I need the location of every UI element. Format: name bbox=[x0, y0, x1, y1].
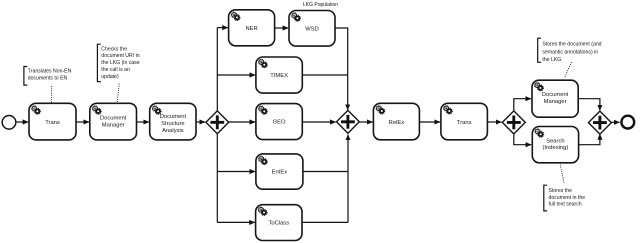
wire EntEx out to bottom bus bbox=[303, 171, 348, 173]
wire G1 to TIMEX bbox=[217, 74, 255, 76]
task Trans 2 bbox=[441, 103, 488, 140]
wire Document Manager to Document Structure Analysis bbox=[137, 121, 149, 123]
svg-text:Stores the: Stores the bbox=[549, 188, 573, 194]
svg-text:Manager: Manager bbox=[544, 99, 567, 105]
gateway G2 parallel bbox=[337, 110, 360, 133]
svg-text:Analysis: Analysis bbox=[162, 128, 184, 134]
task Trans bbox=[29, 103, 76, 140]
svg-text:RelEx: RelEx bbox=[389, 120, 405, 126]
svg-text:Checks the: Checks the bbox=[101, 46, 127, 52]
svg-text:ToClass: ToClass bbox=[268, 221, 289, 227]
start event bbox=[2, 116, 16, 130]
wire start to Trans bbox=[16, 121, 28, 123]
wire G3 to Search bbox=[514, 134, 531, 145]
task EntEx bbox=[256, 154, 303, 189]
svg-text:the call is an: the call is an bbox=[101, 67, 130, 73]
task NER bbox=[229, 10, 275, 46]
wire ToClass out to bottom bus bbox=[302, 221, 348, 223]
wire G1 to EntEx bbox=[217, 171, 255, 173]
wire G1 to ToClass bbox=[217, 221, 255, 223]
wire Document Manager 2 to gateway G4 top bbox=[578, 99, 600, 111]
leader dotted A1 to Trans bbox=[51, 87, 53, 103]
gateway G1 parallel bbox=[206, 111, 229, 134]
svg-text:LKG Population: LKG Population bbox=[303, 2, 338, 8]
svg-text:full text search: full text search bbox=[549, 202, 582, 208]
task TIMEX bbox=[256, 57, 302, 93]
svg-text:TIMEX: TIMEX bbox=[270, 73, 288, 79]
svg-text:the LKG: the LKG bbox=[542, 57, 561, 63]
task Document Manager 2 bbox=[532, 80, 578, 117]
svg-text:the LKG (in case: the LKG (in case bbox=[101, 60, 139, 66]
wire Document Structure Analysis to gateway G1 bbox=[196, 121, 205, 123]
svg-text:documents to EN: documents to EN bbox=[28, 76, 68, 82]
wire G2 to RelEx bbox=[359, 121, 372, 123]
svg-text:GEO: GEO bbox=[273, 120, 286, 126]
wire Trans to Document Manager bbox=[76, 121, 89, 123]
wire G1 to NER bbox=[217, 27, 228, 29]
svg-text:semantic annotations) in: semantic annotations) in bbox=[542, 49, 598, 55]
task Search Indexing bbox=[532, 127, 578, 163]
svg-text:Trans: Trans bbox=[45, 120, 60, 126]
wire Search to gateway G4 bottom bbox=[579, 134, 600, 145]
task ToClass bbox=[256, 205, 302, 241]
wire G1 split vertical bus bbox=[216, 28, 218, 223]
svg-text:update): update) bbox=[101, 74, 119, 80]
label LKG Population bbox=[303, 2, 338, 8]
task WSD bbox=[289, 11, 335, 47]
wire bottom bus to gateway G2 bottom bbox=[347, 135, 349, 223]
svg-text:Manager: Manager bbox=[102, 123, 125, 129]
wire TIMEX join to WSD bus bbox=[302, 74, 347, 76]
svg-text:Stores the document (and: Stores the document (and bbox=[542, 42, 601, 48]
wire NER to WSD bbox=[275, 27, 289, 29]
svg-text:Translates Non-EN: Translates Non-EN bbox=[28, 68, 72, 74]
annotation A3 Stores the document and semantic annotations in the LKG bbox=[538, 38, 602, 63]
task RelEx bbox=[373, 103, 419, 140]
leader dotted A2 to Document Manager bbox=[117, 84, 119, 102]
svg-text:EntEx: EntEx bbox=[272, 170, 288, 176]
wire G3 to Document Manager 2 bbox=[514, 99, 531, 111]
svg-text:Document: Document bbox=[542, 92, 569, 98]
wire WSD to gateway G2 top bbox=[335, 28, 348, 110]
gateway G3 parallel bbox=[502, 111, 525, 134]
svg-text:Document: Document bbox=[100, 116, 127, 122]
svg-text:WSD: WSD bbox=[305, 26, 319, 32]
leader dotted A4 from Search bbox=[560, 165, 564, 184]
wire G4 to end event bbox=[611, 121, 619, 123]
wire RelEx to Trans2 bbox=[419, 121, 440, 123]
svg-text:Structure: Structure bbox=[161, 121, 185, 127]
svg-text:document URI in: document URI in bbox=[101, 53, 139, 59]
svg-text:NER: NER bbox=[245, 26, 257, 32]
wire G1 to GEO bbox=[229, 121, 255, 123]
svg-text:Document: Document bbox=[160, 114, 187, 120]
svg-text:document in the: document in the bbox=[549, 195, 586, 201]
annotation A4 Stores the document in the full text search bbox=[544, 185, 585, 211]
gateway G4 parallel bbox=[588, 111, 611, 134]
task Document Manager bbox=[90, 103, 137, 140]
annotation A1 Translates Non-EN documents to EN bbox=[24, 67, 72, 86]
svg-text:Search: Search bbox=[546, 138, 564, 144]
wire Trans2 to gateway G3 bbox=[487, 121, 501, 123]
svg-text:(Indexing): (Indexing) bbox=[543, 145, 569, 151]
end event bbox=[621, 116, 634, 129]
task Document Structure Analysis bbox=[150, 103, 196, 140]
wire GEO to gateway G2 bbox=[302, 121, 335, 123]
annotation A2 Checks the document URI in the LKG bbox=[97, 44, 139, 81]
leader dotted A3 to Document Manager 2 bbox=[565, 63, 572, 79]
task GEO bbox=[256, 104, 302, 140]
svg-text:Trans: Trans bbox=[457, 120, 472, 126]
